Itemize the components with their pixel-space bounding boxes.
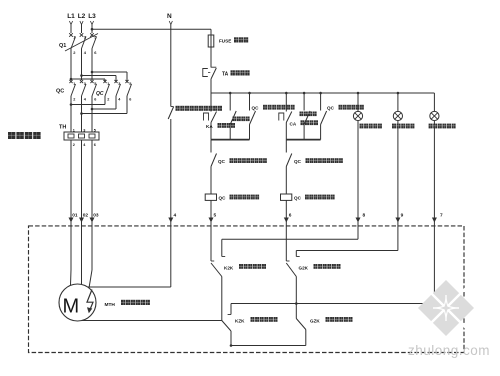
svg-text:QC: QC bbox=[219, 196, 227, 201]
svg-text:Q1: Q1 bbox=[59, 43, 66, 49]
svg-text:KZK: KZK bbox=[235, 319, 245, 324]
svg-text:MTH: MTH bbox=[105, 302, 116, 308]
svg-text:QC: QC bbox=[294, 159, 302, 164]
svg-text:4: 4 bbox=[174, 213, 177, 219]
svg-text:6: 6 bbox=[289, 213, 292, 219]
svg-text:G2K: G2K bbox=[299, 266, 309, 271]
svg-text:QC: QC bbox=[252, 106, 260, 111]
svg-text:L2: L2 bbox=[78, 13, 86, 20]
svg-text:KA: KA bbox=[206, 124, 213, 129]
svg-text:QC: QC bbox=[96, 91, 104, 97]
svg-text:8: 8 bbox=[363, 213, 366, 219]
svg-text:L1: L1 bbox=[67, 13, 75, 20]
svg-text:M: M bbox=[63, 296, 80, 318]
svg-text:6: 6 bbox=[129, 98, 131, 102]
svg-text:5: 5 bbox=[214, 213, 217, 219]
svg-text:zhulong.com: zhulong.com bbox=[408, 343, 490, 358]
svg-text:9: 9 bbox=[401, 213, 404, 219]
svg-text:QC: QC bbox=[218, 159, 226, 164]
svg-text:QC: QC bbox=[327, 106, 335, 111]
svg-text:2: 2 bbox=[73, 143, 75, 147]
svg-text:QC: QC bbox=[56, 89, 64, 95]
svg-text:7: 7 bbox=[440, 213, 443, 219]
svg-text:TA: TA bbox=[222, 72, 229, 78]
svg-text:N: N bbox=[167, 13, 172, 20]
svg-text:CA: CA bbox=[290, 121, 297, 126]
svg-text:K2K: K2K bbox=[224, 266, 234, 271]
svg-text:GZK: GZK bbox=[310, 319, 320, 324]
svg-text:6: 6 bbox=[94, 143, 96, 147]
svg-text:QC: QC bbox=[294, 196, 302, 201]
svg-text:L3: L3 bbox=[88, 13, 96, 20]
svg-text:FUSE: FUSE bbox=[219, 39, 231, 44]
svg-text:2: 2 bbox=[107, 98, 109, 102]
svg-text:6: 6 bbox=[94, 98, 96, 102]
svg-text:2: 2 bbox=[73, 98, 75, 102]
svg-text:TH: TH bbox=[59, 125, 66, 131]
